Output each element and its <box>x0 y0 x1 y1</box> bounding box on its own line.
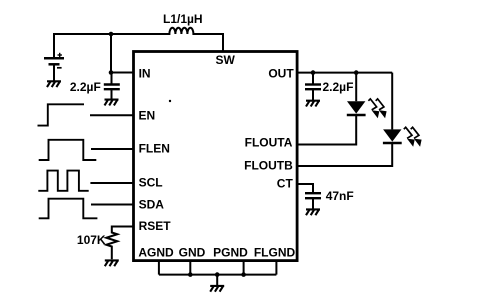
svg-text:SDA: SDA <box>139 198 165 212</box>
svg-text:L1/1µH: L1/1µH <box>163 12 203 26</box>
svg-text:2.2µF: 2.2µF <box>323 80 354 94</box>
svg-text:PGND: PGND <box>213 246 248 260</box>
svg-text:AGND: AGND <box>138 246 174 260</box>
svg-text:IN: IN <box>139 67 151 81</box>
svg-text:EN: EN <box>139 109 156 123</box>
svg-text:GND: GND <box>179 246 206 260</box>
svg-text:107K: 107K <box>77 233 106 247</box>
svg-text:SW: SW <box>216 53 236 67</box>
svg-text:2.2µF: 2.2µF <box>70 80 101 94</box>
svg-text:CT: CT <box>277 177 294 191</box>
svg-text:FLGND: FLGND <box>254 246 296 260</box>
svg-text:FLOUTA: FLOUTA <box>245 136 293 150</box>
svg-text:47nF: 47nF <box>326 189 354 203</box>
svg-text:OUT: OUT <box>268 66 294 80</box>
svg-text:FLOUTB: FLOUTB <box>244 159 293 173</box>
svg-text:FLEN: FLEN <box>139 142 170 156</box>
svg-text:RSET: RSET <box>139 219 172 233</box>
svg-text:SCL: SCL <box>139 176 163 190</box>
